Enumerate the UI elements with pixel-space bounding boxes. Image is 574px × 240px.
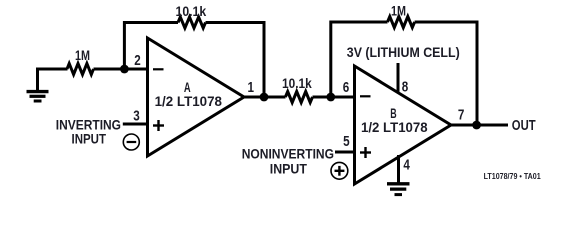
svg-text:1/2 LT1078: 1/2 LT1078 (361, 120, 428, 135)
svg-text:10.1k: 10.1k (176, 4, 207, 20)
resistor R3 (10.1k between stages) (285, 92, 312, 103)
wire op-amp B output (pin 7) to OUT (449, 124, 508, 127)
svg-text:5: 5 (343, 134, 350, 150)
junction node at output of B (472, 121, 481, 130)
plus sign at pin 3 input of A (153, 120, 164, 131)
svg-text:6: 6 (343, 80, 350, 96)
wire from R4 to right corner and down to output node of B (415, 22, 477, 125)
circled minus (inverting input polarity symbol) (123, 134, 139, 150)
junction node at pin 2 (120, 65, 129, 74)
wire feedback loop of op-amp A (up, across top, down to output) (124, 23, 178, 70)
wire from R3 to op-amp B inverting input (pin 6) (313, 96, 357, 99)
svg-text:NONINVERTING: NONINVERTING (242, 146, 334, 161)
svg-text:1: 1 (248, 80, 255, 96)
wire from R1 to op-amp A inverting input (pin 2) (94, 68, 150, 71)
svg-text:3V (LITHIUM CELL): 3V (LITHIUM CELL) (347, 45, 460, 60)
svg-text:8: 8 (402, 79, 409, 95)
svg-text:4: 4 (403, 157, 410, 173)
circled plus (noninverting input polarity symbol) (331, 162, 348, 179)
svg-text:7: 7 (458, 107, 465, 123)
svg-text:A: A (184, 79, 191, 95)
minus sign at pin 2 input of A (153, 68, 164, 70)
svg-text:1/2 LT1078: 1/2 LT1078 (155, 94, 223, 109)
wire INVERTING INPUT to pin 3 (123, 123, 149, 126)
resistor R2 (10.1k feedback of op-amp A) (178, 17, 206, 28)
wire feedback loop of op-amp B (up, across top, down to output) (331, 22, 388, 97)
wire supply stub to pin 8 (397, 63, 400, 94)
svg-text:INPUT: INPUT (270, 161, 308, 176)
wire NONINVERTING INPUT to pin 5 (335, 151, 356, 154)
wire op-amp A output (pin 1) to resistor R3 (242, 96, 286, 99)
svg-text:B: B (390, 105, 396, 121)
ground GND1 (left input ground) (27, 68, 49, 102)
svg-text:LT1078/79 • TA01: LT1078/79 • TA01 (484, 171, 541, 181)
junction node at pin 6 (326, 93, 335, 102)
svg-text:INPUT: INPUT (72, 131, 107, 146)
minus sign at pin 6 input of B (360, 95, 371, 97)
svg-text:2: 2 (134, 53, 141, 69)
op-amp U1B (1/2 LT1078, triangle B) (355, 66, 452, 184)
resistor R1 (1M input resistor) (67, 64, 94, 75)
svg-text:1M: 1M (75, 48, 90, 64)
wire from GND1 to resistor R1 (36, 68, 68, 71)
svg-text:OUT: OUT (512, 118, 536, 134)
wire from R2 to right corner and down to output node of A (206, 23, 265, 98)
ground GND2 (pin 4 ground) (387, 184, 410, 195)
svg-text:10.1k: 10.1k (282, 76, 312, 92)
plus sign at pin 5 input of B (360, 147, 371, 158)
wire pin 4 stub down to ground (397, 155, 400, 184)
op-amp U1A (1/2 LT1078, triangle A) (148, 38, 245, 156)
svg-text:3: 3 (133, 109, 140, 125)
resistor R4 (1M feedback of op-amp B) (388, 17, 415, 28)
junction node at output of A (260, 93, 269, 102)
svg-text:1M: 1M (391, 4, 406, 20)
